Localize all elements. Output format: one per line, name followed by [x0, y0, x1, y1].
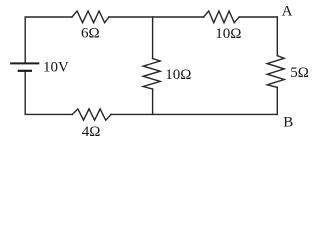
svg-text:10V: 10V	[43, 59, 69, 75]
resistor R4 5ohm right	[267, 56, 284, 88]
battery V1 long plate	[10, 62, 39, 64]
svg-text:4Ω: 4Ω	[82, 124, 101, 140]
svg-text:6Ω: 6Ω	[81, 25, 100, 41]
svg-text:10Ω: 10Ω	[215, 26, 241, 42]
wire top-middle: R1 to R2	[109, 16, 204, 18]
resistor R2 10ohm top	[204, 11, 240, 23]
wire middle branch lower: R3 to bottom junction	[152, 89, 154, 114]
svg-text:A: A	[282, 3, 293, 19]
resistor R1 6ohm	[72, 11, 109, 23]
wire top-right: R2 to node A corner	[239, 16, 277, 18]
svg-text:5Ω: 5Ω	[290, 65, 309, 81]
svg-text:10Ω: 10Ω	[165, 67, 191, 83]
wire right upper: node A down to R4	[276, 17, 278, 56]
wire bottom-left: R5 to battery bottom	[25, 72, 72, 115]
resistor R5 4ohm bottom	[72, 109, 111, 120]
svg-text:B: B	[283, 115, 293, 131]
wire top-left: battery top to resistor R1	[25, 17, 72, 63]
wire right lower: R4 to node B corner	[276, 87, 278, 114]
battery V1 short plate	[18, 70, 32, 72]
wire middle branch upper: top junction down to R3	[152, 17, 154, 59]
wire bottom-right: node B to R5	[111, 113, 277, 115]
resistor R3 10ohm middle	[143, 59, 160, 90]
